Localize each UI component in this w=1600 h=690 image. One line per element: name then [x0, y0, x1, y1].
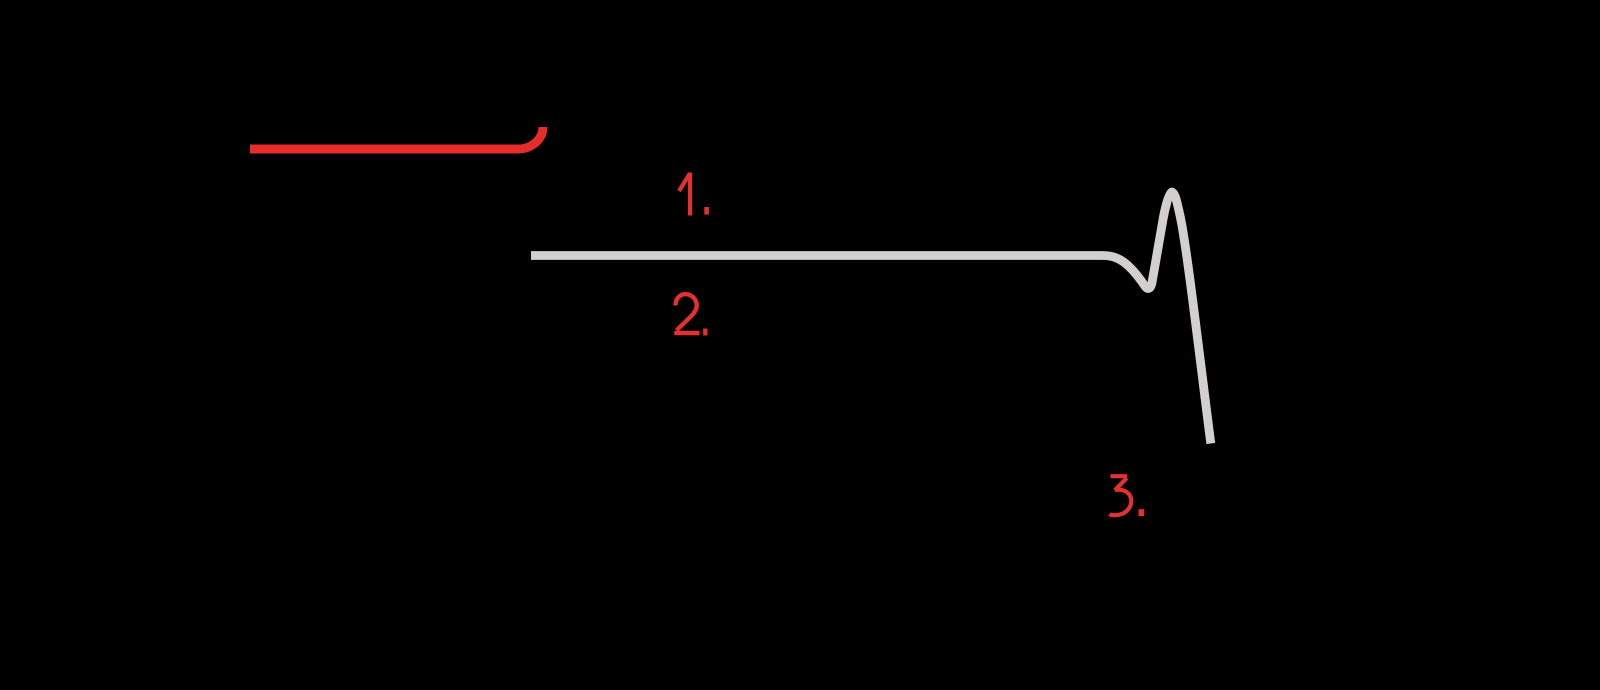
- dot of 2.: [703, 329, 707, 336]
- label 2. (red, below flat line): [674, 294, 699, 333]
- digit 1 flag: [679, 173, 690, 191]
- digit 2 curve + diagonal: [676, 294, 697, 330]
- digit 1 vertical stroke: [688, 173, 692, 216]
- red curve (top-left stroke with upturned end): [250, 127, 543, 149]
- digit 3 top bar: [1111, 474, 1128, 478]
- digit 2 base: [674, 331, 699, 335]
- digit 3 bowl: [1110, 490, 1132, 515]
- label 3. (red, near crash): [1110, 476, 1132, 515]
- digit 3 diagonal: [1115, 478, 1127, 490]
- label 1. (red, above flat line): [679, 173, 690, 216]
- dot of 3.: [1139, 509, 1145, 516]
- dot of 1.: [704, 207, 709, 215]
- white signal curve (flat line, dip, spike, crash): [531, 192, 1211, 444]
